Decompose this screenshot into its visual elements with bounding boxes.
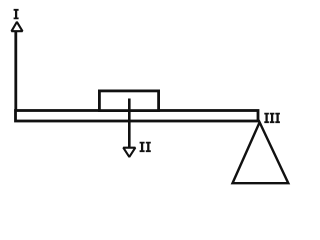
block load on beam xyxy=(99,91,158,111)
fulcrum triangle xyxy=(233,122,289,183)
force arrow II head (open, pointing down) xyxy=(123,148,135,157)
force arrow I head (open, pointing up) xyxy=(12,22,23,31)
force arrow II shaft (wire) xyxy=(128,99,131,149)
force arrow I shaft (wire) xyxy=(14,30,17,111)
label III xyxy=(264,113,280,123)
label II xyxy=(140,142,151,152)
lever beam xyxy=(16,111,259,122)
label I xyxy=(14,9,19,19)
